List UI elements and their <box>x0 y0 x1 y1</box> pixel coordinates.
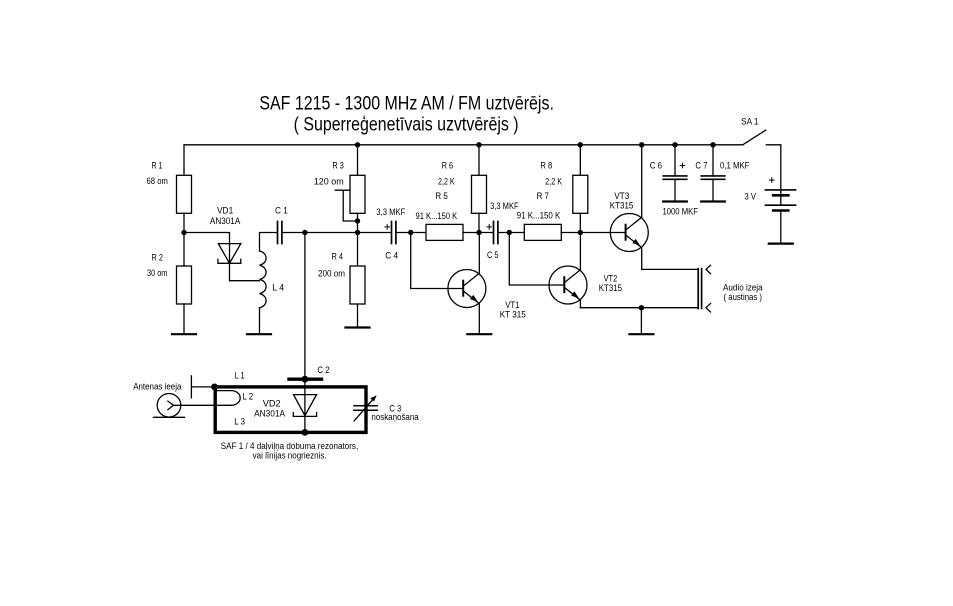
wire: to VT1 base <box>411 233 464 289</box>
svg-text:C 6: C 6 <box>650 161 662 172</box>
resistor R6 <box>438 145 487 233</box>
resistor R1 <box>147 161 192 233</box>
svg-text:( austiņas ): ( austiņas ) <box>724 292 763 303</box>
svg-text:R 4: R 4 <box>332 252 344 263</box>
ground under VT1 <box>467 333 491 335</box>
ground under C6 <box>663 200 687 202</box>
svg-text:C 7: C 7 <box>695 161 707 172</box>
svg-text:91 K...150 K: 91 K...150 K <box>416 211 458 222</box>
svg-text:noskaņošana: noskaņošana <box>371 412 419 423</box>
svg-text:C 5: C 5 <box>487 250 499 261</box>
resonator box <box>215 387 366 433</box>
node: R8/VT2 collector junction <box>578 230 583 235</box>
svg-text:R 5: R 5 <box>435 191 447 202</box>
svg-text:KT 315: KT 315 <box>500 310 526 321</box>
wire: top power rail <box>184 145 743 176</box>
node: rail at VT3 collector <box>639 142 644 147</box>
svg-text:SAF 1215 - 1300 MHz AM / FM uz: SAF 1215 - 1300 MHz AM / FM uztvērējs. <box>259 93 554 114</box>
svg-text:R 8: R 8 <box>540 161 552 172</box>
wire: R7 to VT3 base <box>561 232 625 234</box>
resistor R2 <box>147 233 192 334</box>
svg-text:91 K...150 K: 91 K...150 K <box>517 211 561 222</box>
diode VD1 AN301A <box>210 206 260 281</box>
wire: antenna feed into loop <box>174 404 232 406</box>
svg-text:R 3: R 3 <box>332 161 344 172</box>
svg-text:L 1: L 1 <box>235 370 245 381</box>
capacitor C4 <box>376 207 405 261</box>
node: rail at R6 <box>476 142 481 147</box>
transistor VT3 KT315 <box>610 145 649 270</box>
svg-text:VD1: VD1 <box>217 206 233 217</box>
svg-text:L 3: L 3 <box>234 417 245 428</box>
ground under C7 <box>701 200 725 202</box>
resistor R5 <box>416 191 464 241</box>
svg-text:L 4: L 4 <box>272 282 284 293</box>
ground under battery <box>769 243 793 245</box>
node: R3/R4 bus junction <box>355 230 360 235</box>
wire: bus C1 to C4 <box>283 232 391 234</box>
wire: down to C2 <box>304 233 306 386</box>
svg-text:L 2: L 2 <box>242 391 253 402</box>
wire: R5 to C5 <box>463 232 493 234</box>
svg-text:68 om: 68 om <box>147 176 168 187</box>
svg-text:1000 MKF: 1000 MKF <box>663 207 699 218</box>
node: rail at R3 <box>355 142 360 147</box>
node: C5/VT2-base junction <box>507 230 512 235</box>
svg-text:2,2 K: 2,2 K <box>438 176 455 187</box>
wire: C5 to R7 <box>499 232 525 234</box>
wire: audio top line <box>642 268 698 270</box>
svg-text:30 om: 30 om <box>147 268 167 279</box>
node: box corner at probe <box>211 384 218 391</box>
resistor R7 <box>517 191 562 241</box>
svg-text:R 2: R 2 <box>152 253 163 264</box>
svg-text:R 7: R 7 <box>537 191 549 202</box>
node: R3 wiper junction <box>355 218 360 223</box>
coupling loop L2 <box>216 391 253 406</box>
ground under audio line <box>629 333 653 335</box>
svg-text:C 1: C 1 <box>275 206 288 217</box>
svg-text:KT315: KT315 <box>610 200 634 211</box>
svg-text:AN301A: AN301A <box>210 216 241 227</box>
battery 3V <box>745 178 796 243</box>
node: rail at R8 <box>578 142 583 147</box>
capacitor C7 0,1 MKF <box>695 145 749 201</box>
node: C2 tap <box>302 230 307 235</box>
svg-text:R 1: R 1 <box>152 161 163 172</box>
transistor VT1 KT315 <box>448 233 526 334</box>
capacitor C6 1000 MKF <box>650 145 698 218</box>
capacitor C2 <box>289 365 330 382</box>
resistor R3 (trimmer) <box>314 145 365 233</box>
svg-text:120 om: 120 om <box>314 176 344 187</box>
capacitor C5 <box>487 201 519 261</box>
node: VD2 bottom junction <box>302 429 309 436</box>
inductor L4 <box>260 233 285 334</box>
capacitor C1 <box>275 206 288 244</box>
svg-text:SA 1: SA 1 <box>741 117 758 128</box>
wire: audio ground lead <box>640 308 642 333</box>
antenna input connector <box>133 381 184 417</box>
ground under L4 <box>247 333 271 335</box>
svg-text:Antenas ieeja: Antenas ieeja <box>133 381 182 392</box>
svg-text:C 4: C 4 <box>385 251 398 262</box>
wire: to VT2 base <box>509 233 564 286</box>
ground under R2 <box>172 333 196 335</box>
wire: C4 to R5 <box>397 232 426 234</box>
svg-text:R 6: R 6 <box>442 161 454 172</box>
node: rail at C6 <box>672 142 677 147</box>
svg-text:3 V: 3 V <box>745 192 757 203</box>
node: rail at C7 <box>710 142 715 147</box>
svg-text:3,3 MKF: 3,3 MKF <box>376 207 405 218</box>
svg-text:( Superreģenetīvais uzvtvērējs: ( Superreģenetīvais uzvtvērējs ) <box>294 114 519 135</box>
node: R1/R2 junction <box>181 230 186 235</box>
resistor R8 <box>540 145 587 233</box>
svg-text:0,1 MKF: 0,1 MKF <box>720 161 750 172</box>
diode VD2 AN301A <box>254 387 317 433</box>
resistor R4 <box>318 233 365 327</box>
probe L1 <box>191 370 244 398</box>
svg-text:AN301A: AN301A <box>254 409 286 420</box>
svg-text:C 2: C 2 <box>317 365 329 376</box>
wire: bus from R1 junction to VD1 <box>184 233 230 244</box>
variable capacitor C3 <box>354 395 419 423</box>
svg-text:3,3 MKF: 3,3 MKF <box>490 201 519 212</box>
audio jack (headphones) <box>698 265 763 312</box>
svg-text:vai līnijas nogrieznis.: vai līnijas nogrieznis. <box>253 451 327 462</box>
switch SA1 <box>741 117 766 145</box>
svg-text:KT315: KT315 <box>599 283 622 294</box>
node: C4/VT1-base junction <box>408 230 413 235</box>
node: R6/VT1 collector junction <box>476 230 481 235</box>
node: audio ground tap <box>639 305 644 310</box>
transistor VT2 KT315 <box>549 233 622 308</box>
wire: rail to battery <box>766 145 781 190</box>
svg-text:2,2 K: 2,2 K <box>545 176 563 187</box>
ground under R4 <box>346 326 370 328</box>
svg-text:200 om: 200 om <box>318 269 345 280</box>
wire: audio bottom line <box>580 307 697 309</box>
